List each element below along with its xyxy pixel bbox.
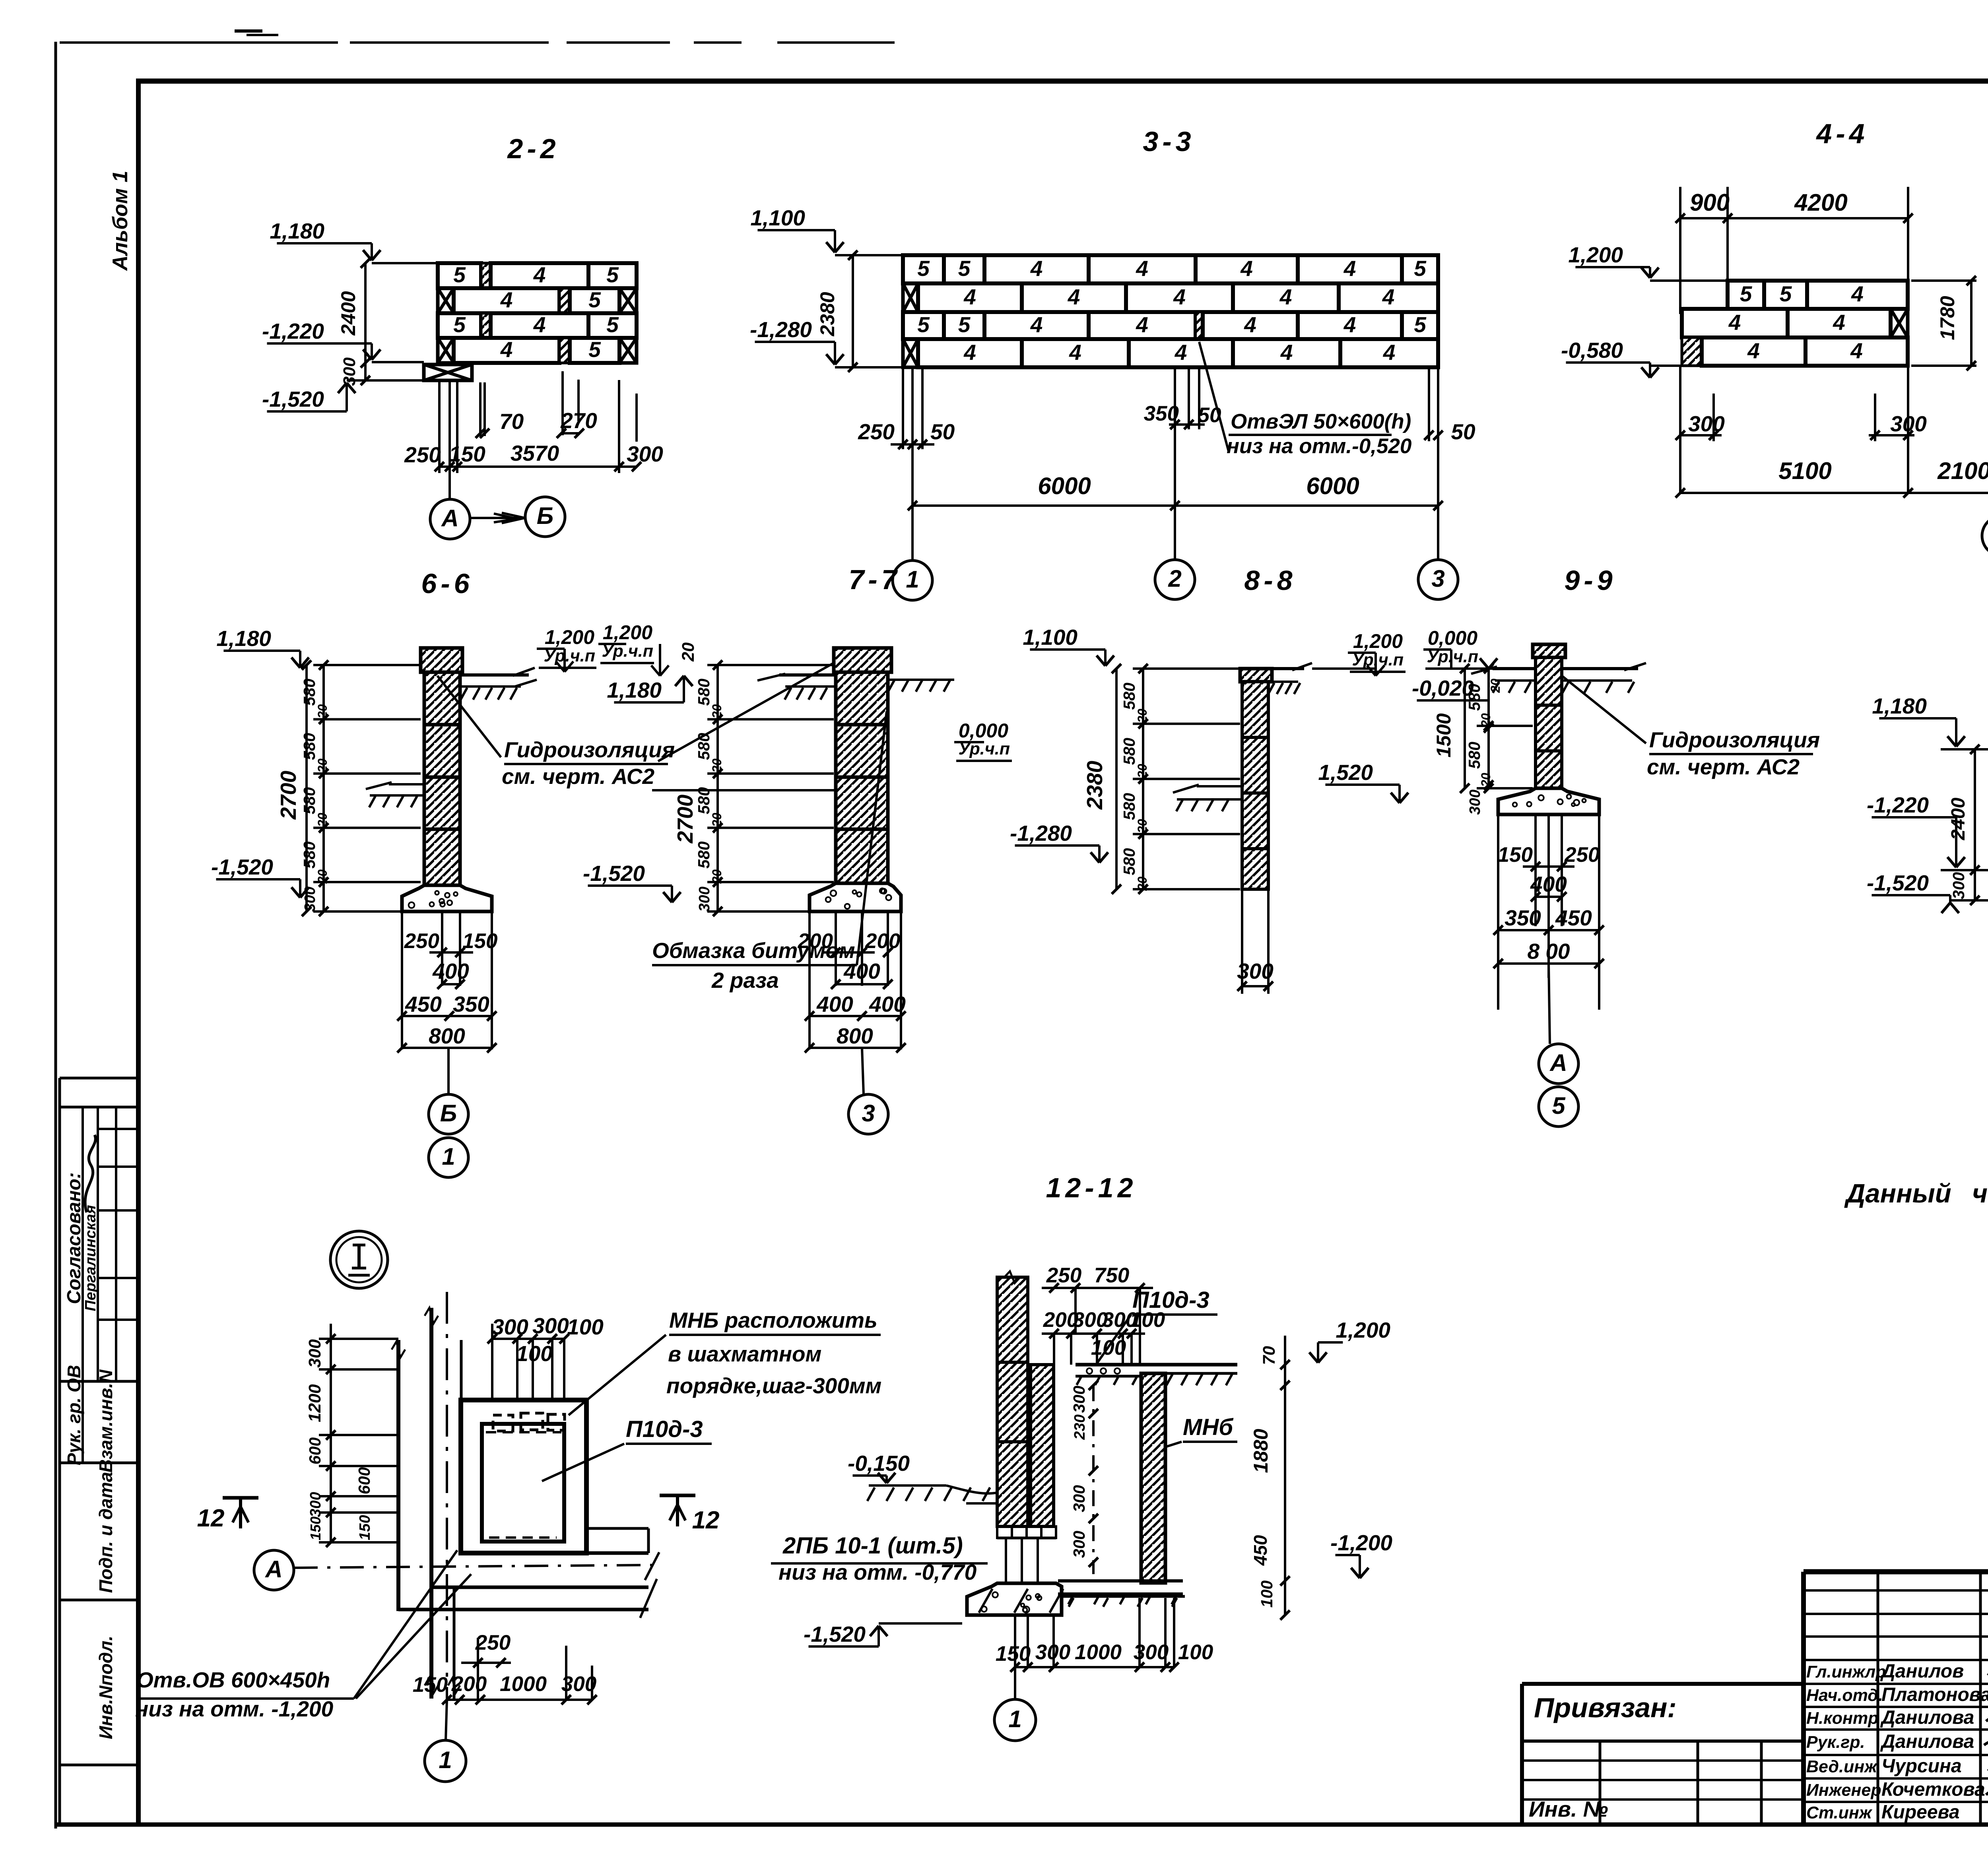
svg-text:4: 4 <box>533 312 546 337</box>
footing pad 7-7 <box>810 883 901 911</box>
svg-text:800: 800 <box>837 1024 873 1048</box>
svg-text:4: 4 <box>500 287 513 312</box>
footing pad 6-6 <box>402 885 492 911</box>
svg-text:350: 350 <box>1144 402 1179 425</box>
svg-text:4: 4 <box>500 337 513 362</box>
level mark -1.280 (3-3) <box>750 317 903 367</box>
svg-text:4: 4 <box>1833 310 1845 335</box>
svg-text:580: 580 <box>300 787 318 814</box>
svg-text:9-9: 9-9 <box>1564 565 1616 596</box>
level mark 1.180 (2-2) <box>270 219 438 263</box>
svg-text:Вед.инж: Вед.инж <box>1806 1757 1878 1776</box>
svg-text:1,180: 1,180 <box>1872 694 1927 718</box>
svg-text:250: 250 <box>404 929 439 953</box>
svg-text:200: 200 <box>798 929 833 953</box>
svg-text:5: 5 <box>1414 312 1427 337</box>
level mark -0.020 (9-9) <box>1412 658 1497 700</box>
svg-text:4: 4 <box>1382 285 1395 309</box>
svg-text:-1,280: -1,280 <box>750 317 812 342</box>
svg-text:3: 3 <box>862 1100 875 1127</box>
svg-text:2400: 2400 <box>1948 797 1969 840</box>
dim chain (9-9) <box>1433 664 1533 815</box>
bottom slab (12-12) <box>1058 1581 1183 1604</box>
svg-text:Данилова: Данилова <box>1880 1731 1974 1752</box>
level marks Ур.ч.п (7-7) <box>537 621 698 702</box>
svg-text:250: 250 <box>475 1631 511 1654</box>
level mark 1.200 Ур.ч.п right (8-8) <box>1312 630 1406 676</box>
svg-text:Инв. №: Инв. № <box>1529 1797 1608 1821</box>
svg-text:4: 4 <box>1747 338 1760 363</box>
svg-text:-1,520: -1,520 <box>583 861 645 886</box>
svg-text:МНБ расположить: МНБ расположить <box>669 1308 878 1332</box>
svg-text:4: 4 <box>1279 285 1292 309</box>
vertical dim 2400/300 (2-2) <box>337 258 370 386</box>
svg-text:Б: Б <box>440 1100 457 1127</box>
bottom dims 7-7 <box>798 911 906 1053</box>
svg-text:4: 4 <box>1343 256 1356 281</box>
svg-text:1500: 1500 <box>1433 713 1455 757</box>
svg-text:600: 600 <box>306 1437 324 1465</box>
level mark 1.200 (12-12) <box>1309 1318 1390 1363</box>
svg-text:Ур.ч.п: Ур.ч.п <box>602 642 653 661</box>
plan wall vertical lines <box>392 1308 438 1699</box>
grid bubble А (2-2) <box>430 499 470 539</box>
level mark 1.100 (8-8) <box>1023 625 1114 666</box>
svg-text:20: 20 <box>315 869 330 884</box>
plan axis 1 centerline <box>446 1292 448 1700</box>
wall 4-4 brick row 2 <box>1682 309 1908 337</box>
svg-text:300: 300 <box>532 1313 569 1338</box>
svg-text:1780: 1780 <box>1936 296 1959 340</box>
svg-text:300: 300 <box>340 357 359 386</box>
svg-text:Альбом 1: Альбом 1 <box>109 171 132 271</box>
svg-text:4: 4 <box>963 340 976 365</box>
svg-text:230: 230 <box>1072 1414 1088 1440</box>
inner dim chain 300s (12-12) <box>1070 1381 1098 1574</box>
wall 12-12 left hatched strip <box>997 1271 1028 1526</box>
svg-text:300: 300 <box>1070 1386 1088 1413</box>
svg-text:Чурсина: Чурсина <box>1881 1756 1962 1777</box>
svg-text:низ на отм.-0,520: низ на отм.-0,520 <box>1227 434 1411 458</box>
svg-text:порядке,шаг-300мм: порядке,шаг-300мм <box>666 1373 881 1398</box>
svg-text:см. черт. АС2: см. черт. АС2 <box>1647 754 1800 779</box>
svg-text:Инженер: Инженер <box>1806 1781 1881 1800</box>
grid bubble Б (2-2) <box>470 497 565 537</box>
svg-text:6-6: 6-6 <box>421 568 473 599</box>
svg-text:400: 400 <box>869 992 906 1016</box>
svg-text:Пергалинская: Пергалинская <box>82 1205 99 1311</box>
top ledge (8-8) <box>1268 663 1312 694</box>
svg-text:350: 350 <box>1505 906 1541 930</box>
sig row Н.контр Данилова <box>1806 1707 1974 1728</box>
label МНб (12-12) <box>1165 1414 1237 1447</box>
svg-text:300: 300 <box>1467 789 1483 814</box>
MNB column 12-12 hatched <box>1141 1373 1165 1583</box>
sig row Инженер Кочеткова <box>1806 1779 1985 1800</box>
wall 3-3 brick row 1 <box>903 255 1438 283</box>
svg-text:-1,520: -1,520 <box>262 387 324 411</box>
svg-text:1,520: 1,520 <box>1318 760 1373 785</box>
column 6-6 hatched <box>421 648 462 885</box>
svg-text:2: 2 <box>1168 565 1181 592</box>
svg-text:20: 20 <box>1488 679 1503 693</box>
note МНБ расположить в шахматном порядке шаг-300мм <box>569 1308 881 1415</box>
sig row Ст.инж Киреева <box>1806 1802 1960 1823</box>
svg-text:3570: 3570 <box>511 441 559 465</box>
svg-text:150: 150 <box>413 1673 448 1697</box>
level mark 1.200 (4-4) <box>1568 242 1728 281</box>
svg-text:20: 20 <box>710 758 724 773</box>
svg-text:6000: 6000 <box>1038 473 1091 499</box>
otv EL leader and note (3-3) <box>1199 342 1411 458</box>
svg-text:Ур.ч.п: Ур.ч.п <box>1427 647 1478 666</box>
svg-text:70: 70 <box>1260 1346 1279 1365</box>
svg-text:Инв.Nподл.: Инв.Nподл. <box>95 1636 116 1739</box>
svg-text:Гидроизоляция: Гидроизоляция <box>1649 727 1820 752</box>
wall 3-3 brick row 2 <box>903 283 1438 312</box>
svg-text:20: 20 <box>1479 713 1493 728</box>
floor slab left (7-7) <box>757 674 836 700</box>
svg-text:5: 5 <box>1740 281 1753 306</box>
svg-text:300: 300 <box>1890 411 1927 436</box>
svg-text:4: 4 <box>1383 340 1396 365</box>
svg-text:-1,520: -1,520 <box>211 855 273 879</box>
svg-text:5: 5 <box>1552 1092 1566 1119</box>
svg-text:300: 300 <box>627 442 663 466</box>
note Гидроизоляция см.черт.АС2 (9-9) <box>1647 727 1820 779</box>
svg-text:Рук.гр.: Рук.гр. <box>1806 1733 1865 1752</box>
floor slab right (6-6) <box>460 668 537 700</box>
svg-text:2700: 2700 <box>276 770 301 820</box>
svg-text:А: А <box>441 505 458 531</box>
note Обмазка битумом 2 раза <box>652 712 887 993</box>
svg-text:20: 20 <box>1135 764 1149 779</box>
label П10д-3 (12-12) <box>1097 1287 1217 1363</box>
svg-text:200: 200 <box>865 929 900 953</box>
note Гидроизоляция см.черт.АС2 (6-6/7-7) <box>502 737 675 789</box>
svg-text:Ст.инж: Ст.инж <box>1806 1803 1873 1823</box>
bottom dim 300 (8-8) <box>1237 889 1274 994</box>
vertical dim 2380 (3-3) <box>816 250 858 372</box>
svg-text:-1,200: -1,200 <box>1330 1530 1392 1555</box>
svg-text:50: 50 <box>1198 403 1221 427</box>
svg-text:А: А <box>1549 1049 1567 1076</box>
section title 6-6 <box>421 568 473 599</box>
vertical dims 2400 300 (10-10) <box>1948 745 1980 905</box>
svg-text:8-8: 8-8 <box>1244 565 1296 596</box>
bottom dims 300 300 5100 2100 (4-4) <box>1675 366 1988 498</box>
svg-text:5: 5 <box>588 337 601 362</box>
svg-text:2380: 2380 <box>1082 760 1107 810</box>
svg-text:300: 300 <box>305 1339 324 1368</box>
svg-text:-0,580: -0,580 <box>1561 338 1623 363</box>
svg-text:200: 200 <box>451 1672 487 1696</box>
top dims 250 750 (12-12) <box>1042 1264 1153 1365</box>
svg-text:1,100: 1,100 <box>1023 625 1077 650</box>
svg-text:Отв.ОВ 600×450h: Отв.ОВ 600×450h <box>136 1668 330 1692</box>
svg-text:12: 12 <box>692 1507 720 1534</box>
label П10д-3 plan <box>542 1416 712 1481</box>
lintel blocks 2ПБ (12-12) <box>997 1526 1056 1582</box>
plan lower wall lines <box>398 1579 657 1618</box>
note 2ПБ 10-1 (шт.5) низ на отм.-0.770 <box>771 1533 988 1584</box>
svg-text:3-3: 3-3 <box>1143 126 1195 157</box>
plan bottom dims 250 150 200 1000 300 <box>413 1631 597 1705</box>
wall 12-12 right hatched strip <box>1031 1365 1054 1526</box>
svg-text:Согласовано:: Согласовано: <box>64 1172 85 1304</box>
bottom dims 6-6 <box>397 911 497 1053</box>
svg-text:70: 70 <box>499 409 524 434</box>
svg-text:5: 5 <box>958 256 971 281</box>
svg-text:250: 250 <box>404 442 441 467</box>
svg-text:300: 300 <box>1237 959 1274 983</box>
ground right (12-12) <box>1165 1373 1237 1385</box>
svg-text:6000: 6000 <box>1306 473 1359 499</box>
level mark -0.150 (12-12) <box>848 1451 910 1483</box>
svg-text:Гл.инжлр: Гл.инжлр <box>1806 1662 1886 1681</box>
svg-text:580: 580 <box>1465 684 1483 711</box>
svg-text:П10д-3: П10д-3 <box>626 1416 703 1442</box>
svg-text:5: 5 <box>588 287 601 312</box>
grid bubble 5 (9-9) <box>1539 1087 1578 1127</box>
svg-text:Кочеткова: Кочеткова <box>1881 1779 1985 1800</box>
slab right of footing (12-12) <box>1062 1596 1185 1607</box>
svg-text:см. черт. АС2: см. черт. АС2 <box>502 764 655 789</box>
svg-text:8 00: 8 00 <box>1527 939 1570 964</box>
svg-text:12-12: 12-12 <box>1046 1172 1137 1203</box>
svg-text:2400: 2400 <box>337 291 359 335</box>
svg-text:7-7: 7-7 <box>848 564 901 595</box>
level mark -1.520 (6-6) <box>211 855 309 898</box>
svg-text:5: 5 <box>453 312 466 337</box>
svg-text:4: 4 <box>1728 310 1741 335</box>
plan wall second line <box>448 1340 461 1699</box>
svg-text:100: 100 <box>1258 1580 1276 1608</box>
grid bubble 2 (3-3) <box>1155 429 1195 599</box>
sig row Нач.отд. Платонова <box>1806 1684 1988 1705</box>
svg-text:20: 20 <box>315 813 330 828</box>
svg-text:4: 4 <box>1175 340 1187 365</box>
plan MNB anchors dashed <box>486 1413 565 1538</box>
note Данный чертеж смотреть с листом АС7 <box>1844 1179 1988 1208</box>
svg-text:в шахматном: в шахматном <box>668 1342 821 1366</box>
leader гидроизоляция to 7-7 <box>652 662 836 790</box>
svg-text:2 раза: 2 раза <box>711 968 779 993</box>
svg-text:1,200: 1,200 <box>603 621 652 644</box>
svg-text:400: 400 <box>816 992 853 1016</box>
svg-text:800: 800 <box>429 1024 465 1048</box>
svg-text:Рук. гр. ОВ: Рук. гр. ОВ <box>64 1365 84 1465</box>
svg-text:2700: 2700 <box>673 794 697 844</box>
svg-text:580: 580 <box>695 841 713 869</box>
node marker T circled <box>330 1231 388 1288</box>
right dim 50 (3-3) <box>1424 367 1475 560</box>
svg-text:Ур.ч.п: Ур.ч.п <box>544 646 595 665</box>
grid bubble Б (4-4) <box>1982 516 1988 556</box>
svg-text:-1,220: -1,220 <box>1867 793 1929 817</box>
level mark -1.520 (7-7) <box>583 861 681 902</box>
svg-text:А: А <box>264 1556 282 1582</box>
svg-text:400: 400 <box>432 959 469 983</box>
section title 7-7 <box>848 564 901 595</box>
sig row Гл.инжлр Данилов <box>1806 1661 1964 1682</box>
note Отв.ОВ 600×450h низ на отм.-1.200 <box>135 1550 471 1721</box>
svg-text:20: 20 <box>679 642 698 662</box>
dim chain 580/20 (8-8) <box>1082 664 1240 894</box>
svg-text:580: 580 <box>1120 848 1138 875</box>
svg-text:0,000: 0,000 <box>1428 627 1477 649</box>
wall 2-2 brick row 1 <box>438 262 637 288</box>
section title 12-12 <box>1046 1172 1137 1203</box>
svg-text:580: 580 <box>695 679 713 706</box>
top dims 200 300 300 100 (12-12) <box>1042 1288 1165 1365</box>
svg-text:150: 150 <box>357 1515 373 1540</box>
grid bubble 3 (7-7) <box>848 1048 888 1134</box>
right dim chain (12-12) <box>1250 1336 1290 1620</box>
stamp text Пергалинская signature <box>82 1135 99 1311</box>
outer paper edge line left <box>54 42 57 1829</box>
svg-text:580: 580 <box>695 733 713 760</box>
svg-text:Нач.отд.: Нач.отд. <box>1806 1686 1883 1705</box>
grid bubble 1 (3-3) <box>893 506 932 600</box>
svg-text:150: 150 <box>462 929 497 953</box>
svg-text:4200: 4200 <box>1794 189 1847 216</box>
signature table grid <box>1804 1572 1988 1824</box>
svg-text:100: 100 <box>567 1315 604 1339</box>
svg-text:4: 4 <box>1030 256 1043 281</box>
svg-text:400: 400 <box>843 959 880 983</box>
svg-text:350: 350 <box>453 992 489 1016</box>
svg-text:150: 150 <box>1498 843 1533 867</box>
plan top dims 300 300 100 100 <box>487 1313 604 1400</box>
svg-text:300: 300 <box>1688 411 1725 436</box>
svg-text:300: 300 <box>1134 1641 1169 1664</box>
svg-text:2ПБ 10-1 (шт.5): 2ПБ 10-1 (шт.5) <box>782 1533 963 1559</box>
ground left (6-6) <box>366 782 424 807</box>
svg-text:300: 300 <box>1070 1485 1088 1513</box>
svg-text:20: 20 <box>710 704 724 719</box>
grid bubble Б (6-6) <box>429 1048 468 1134</box>
section title 4-4 <box>1815 118 1868 149</box>
svg-text:4: 4 <box>1343 312 1356 337</box>
svg-text:1,180: 1,180 <box>216 626 271 651</box>
svg-text:1: 1 <box>442 1143 455 1170</box>
svg-text:250: 250 <box>1564 843 1600 867</box>
section title 9-9 <box>1564 565 1616 596</box>
section title 8-8 <box>1244 565 1296 596</box>
wall 4-4 brick row 3 <box>1682 337 1908 366</box>
svg-text:Данилов: Данилов <box>1880 1661 1964 1682</box>
svg-text:1: 1 <box>906 566 919 593</box>
П10д-3 channel section top (12-12) <box>1076 1365 1237 1385</box>
svg-text:Н.контр: Н.контр <box>1806 1709 1879 1728</box>
grid bubble А plan <box>254 1550 659 1590</box>
svg-text:50: 50 <box>930 419 955 444</box>
top dims 900 4200 (4-4) <box>1675 187 1913 314</box>
svg-text:-0,150: -0,150 <box>848 1451 910 1476</box>
svg-text:2100: 2100 <box>1937 458 1988 484</box>
svg-text:580: 580 <box>1120 793 1138 820</box>
wall 4-4 brick row 1 <box>1728 281 1908 309</box>
outer paper edge broken line top <box>60 31 895 43</box>
stamp text Взам.инв.N <box>95 1369 116 1473</box>
svg-text:П10д-3: П10д-3 <box>1132 1287 1209 1313</box>
grid bubble 1 plan <box>425 1700 466 1782</box>
svg-text:20: 20 <box>1135 709 1149 723</box>
svg-text:600: 600 <box>355 1467 373 1495</box>
svg-text:1,180: 1,180 <box>607 678 662 702</box>
svg-text:900: 900 <box>1690 189 1730 216</box>
wall 2-2 brick row 2 <box>438 287 637 313</box>
svg-text:4: 4 <box>1136 256 1148 281</box>
stamp text Инв.Nподл. <box>95 1636 116 1739</box>
svg-text:1,200: 1,200 <box>1568 242 1623 267</box>
svg-text:150: 150 <box>307 1516 324 1540</box>
svg-text:5: 5 <box>1780 281 1792 306</box>
span dims 6000 6000 (3-3) <box>908 367 1443 510</box>
bottom dims 9-9 <box>1493 814 1604 1010</box>
svg-text:МНб: МНб <box>1183 1414 1234 1440</box>
wall 3-3 brick row 3 <box>903 312 1438 339</box>
svg-text:450: 450 <box>1250 1535 1271 1566</box>
ground left (8-8) <box>1173 785 1242 811</box>
svg-text:Платонова: Платонова <box>1881 1684 1988 1705</box>
svg-text:20: 20 <box>710 813 724 828</box>
svg-text:1,200: 1,200 <box>545 626 594 648</box>
svg-text:300: 300 <box>1035 1641 1070 1664</box>
svg-text:300: 300 <box>1949 872 1968 900</box>
level mark -1.520 (10-10) <box>1867 871 1988 913</box>
section cut marks 12 right <box>660 1495 719 1534</box>
wall 8-8 hatched <box>1240 669 1272 889</box>
svg-text:5: 5 <box>958 312 971 337</box>
svg-text:4: 4 <box>963 285 976 309</box>
svg-text:1,200: 1,200 <box>1336 1318 1390 1342</box>
dim chain 580/20 (7-7) <box>673 660 834 916</box>
svg-text:5: 5 <box>917 312 930 337</box>
level mark -1.520 (2-2) <box>262 380 424 411</box>
floor slabs both sides (9-9) <box>1471 663 1646 693</box>
dim chain 580/20 (6-6) <box>276 660 421 916</box>
svg-text:20: 20 <box>1135 819 1149 834</box>
svg-text:чертеж: чертеж <box>1972 1179 1988 1208</box>
svg-text:4: 4 <box>1068 285 1080 309</box>
svg-text:4: 4 <box>1240 256 1253 281</box>
section title 3-3 <box>1143 126 1195 157</box>
svg-text:580: 580 <box>300 841 318 869</box>
svg-text:низ на отм. -0,770: низ на отм. -0,770 <box>779 1560 977 1584</box>
grid bubble А (9-9) <box>1539 964 1578 1084</box>
svg-text:250: 250 <box>1046 1264 1081 1287</box>
svg-text:450: 450 <box>405 992 442 1016</box>
level mark 1.520 (9-9) <box>1318 760 1408 803</box>
svg-text:Подп. и дата: Подп. и дата <box>95 1472 116 1593</box>
svg-text:4-4: 4-4 <box>1815 118 1868 149</box>
svg-text:580: 580 <box>1120 738 1138 765</box>
svg-text:низ на отм. -1,200: низ на отм. -1,200 <box>135 1697 334 1721</box>
svg-text:4: 4 <box>1244 312 1256 337</box>
svg-text:Ур.ч.п: Ур.ч.п <box>1352 650 1404 669</box>
svg-text:1,200: 1,200 <box>1353 630 1403 652</box>
svg-text:4: 4 <box>1851 281 1864 306</box>
album label Альбом 1 <box>109 171 132 271</box>
svg-text:580: 580 <box>300 733 318 760</box>
bottom dims 2-2 <box>404 371 663 499</box>
section title 2-2 <box>507 133 559 164</box>
privyazan box <box>1522 1692 1804 1824</box>
svg-text:4: 4 <box>1850 338 1863 363</box>
svg-text:4: 4 <box>1136 312 1148 337</box>
